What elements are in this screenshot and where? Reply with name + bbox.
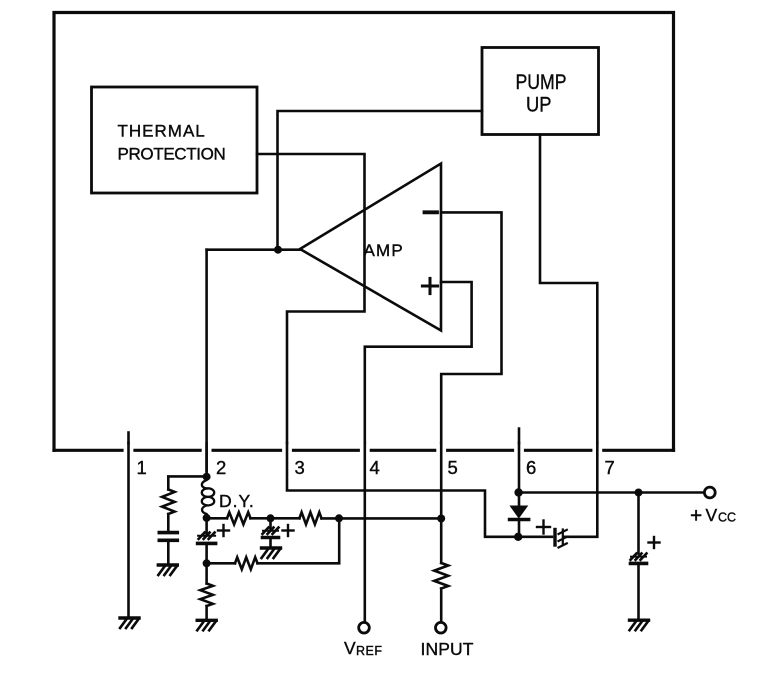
wire row2 b [258, 518, 340, 563]
svg-text:THERMAL: THERMAL [118, 122, 206, 141]
node row1 mid [267, 514, 275, 522]
ground G1 [158, 565, 177, 575]
wire vcc to C5 [637, 493, 640, 554]
wire C1 to ground [167, 540, 170, 565]
resistor R3 [299, 512, 321, 524]
node vcc [635, 489, 643, 497]
wire C4 to node [518, 535, 552, 538]
diode D1 [510, 493, 529, 537]
svg-text:INPUT: INPUT [421, 639, 474, 659]
node amp output [274, 246, 282, 254]
wire vcc rail [519, 491, 704, 494]
pin 7 lead [564, 443, 615, 537]
svg-text:CC: CC [718, 511, 736, 525]
wire row1 c [322, 517, 442, 520]
terminal +Vcc [690, 487, 736, 527]
ground G3 [197, 620, 216, 630]
wire C3 top [269, 518, 272, 529]
wire inverting input to pin 5 [441, 212, 502, 443]
op-amp AMP [300, 164, 441, 331]
svg-text:7: 7 [605, 457, 615, 478]
resistor R6 input [434, 563, 448, 589]
wire R6 to terminal [440, 589, 443, 623]
svg-text:V: V [344, 638, 356, 658]
capacitor C3 polarized [263, 525, 294, 538]
wire C1b top [205, 518, 208, 534]
node feedback [335, 514, 343, 522]
pin 1 lead [129, 443, 147, 618]
wire R5 to ground [205, 606, 208, 620]
IC package outline [54, 13, 674, 451]
wire pin 1 stub [127, 433, 130, 444]
pin 2 lead [207, 443, 227, 478]
wire C3 to ground [269, 538, 272, 549]
ground G4 pin1 [120, 618, 139, 628]
svg-text:PUMP: PUMP [516, 70, 567, 94]
ground G2 [262, 548, 281, 558]
node pin 6 diode anode [514, 488, 522, 496]
resistor R4 [235, 557, 258, 569]
pin 4 lead [365, 443, 380, 622]
node diode cathode [514, 533, 522, 541]
wire pin2 to RC branch [168, 476, 206, 489]
resistor R5 [200, 584, 213, 607]
wire pin 2 to amp output [205, 250, 208, 471]
svg-text:3: 3 [295, 457, 305, 478]
svg-text:UP: UP [526, 93, 552, 117]
wire row1 a [207, 517, 227, 520]
svg-text:AMP: AMP [364, 241, 404, 260]
node input pin5 [437, 515, 445, 523]
resistor R2 [227, 512, 251, 524]
resistor R1 [162, 490, 175, 515]
capacitor C1 [159, 533, 177, 541]
capacitor C5 polarized [631, 537, 660, 563]
wire pin 6 stub [518, 429, 521, 443]
capacitor C2 polarized [198, 525, 229, 543]
node pin 2 mid [203, 514, 211, 522]
thermal protection block [92, 87, 258, 193]
pin 3 lead [287, 443, 518, 537]
wire R1 to C1 [167, 514, 170, 532]
node pin 2 top [203, 473, 211, 481]
wire C5 to ground [637, 563, 640, 620]
svg-text:1: 1 [137, 457, 147, 478]
wire pump up to pin 7 [540, 135, 597, 443]
wire amp output [207, 248, 300, 251]
node pin2 low [203, 559, 211, 567]
capacitor C4 polarized horizontal [537, 521, 567, 548]
terminal VREF [344, 622, 383, 658]
pin 5 lead [441, 443, 458, 563]
svg-text:4: 4 [370, 457, 380, 478]
svg-text:+: + [690, 505, 702, 528]
wire amp output to pump up [278, 111, 483, 250]
wire C2 bottom [205, 543, 208, 563]
wire thermal to pin 3 [257, 154, 365, 443]
inductor DY coil [202, 477, 255, 518]
svg-text:D.Y.: D.Y. [219, 491, 255, 511]
ground G5 [630, 620, 649, 630]
pump up block [482, 48, 599, 135]
wire non-inverting input to pin 4 [365, 282, 472, 443]
wire row1 b [251, 517, 300, 520]
wire row2 a [207, 562, 235, 565]
svg-text:6: 6 [526, 457, 536, 478]
svg-text:V: V [706, 505, 718, 525]
svg-text:5: 5 [448, 457, 458, 478]
svg-text:2: 2 [216, 457, 226, 478]
terminal INPUT [421, 622, 474, 659]
svg-text:PROTECTION: PROTECTION [118, 145, 226, 164]
wire R5 top [205, 563, 208, 583]
svg-text:REF: REF [356, 644, 383, 658]
pin 6 lead [519, 443, 536, 493]
